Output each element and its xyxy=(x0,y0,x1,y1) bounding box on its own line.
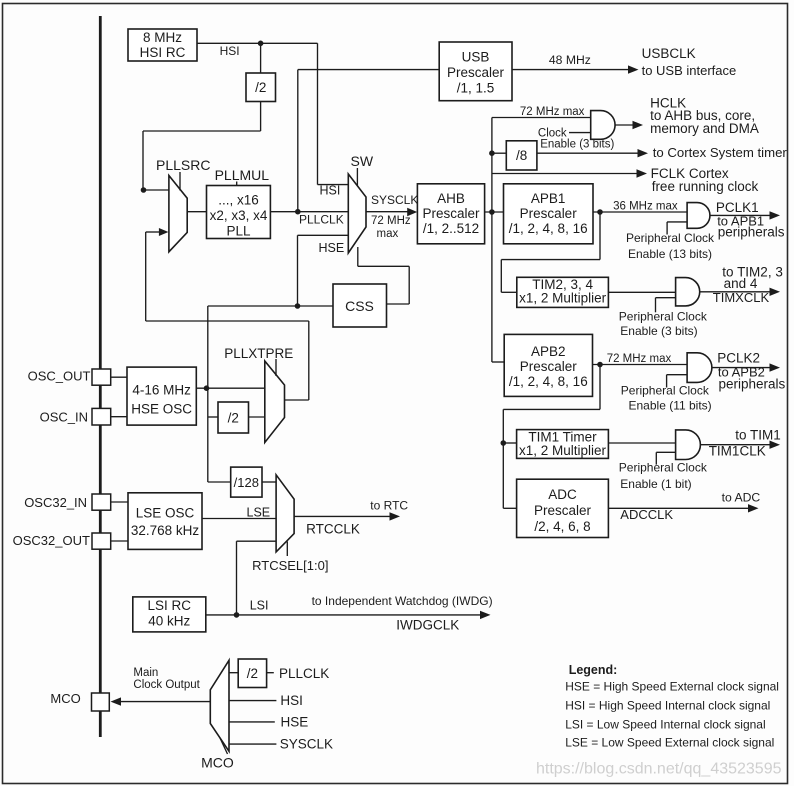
svg-text:LSE = Low Speed External clock: LSE = Low Speed External clock signal xyxy=(565,736,774,750)
svg-text:HSI RC: HSI RC xyxy=(140,45,186,60)
svg-text:TIMXCLK: TIMXCLK xyxy=(713,290,770,305)
svg-text:/8: /8 xyxy=(516,148,527,163)
svg-text:/128: /128 xyxy=(234,475,259,490)
svg-text:HSI: HSI xyxy=(320,184,341,198)
svg-text:Enable (1 bit): Enable (1 bit) xyxy=(620,477,691,491)
svg-text:ADC: ADC xyxy=(548,487,577,502)
svg-text:Enable (3 bits): Enable (3 bits) xyxy=(620,324,697,338)
svg-text:HSI = High Speed Internal cloc: HSI = High Speed Internal clock signal xyxy=(565,699,770,713)
svg-text:max: max xyxy=(377,228,399,240)
svg-text:CSS: CSS xyxy=(345,298,374,314)
svg-text:to ADC: to ADC xyxy=(722,491,761,505)
svg-text:AHB: AHB xyxy=(437,191,465,206)
svg-text:LSI RC: LSI RC xyxy=(148,598,192,613)
svg-text:to Cortex System timer: to Cortex System timer xyxy=(653,145,788,160)
svg-text:40 kHz: 40 kHz xyxy=(148,614,190,629)
svg-text:to RTC: to RTC xyxy=(370,499,408,513)
svg-text:OSC32_IN: OSC32_IN xyxy=(24,495,87,510)
svg-text:Peripheral Clock: Peripheral Clock xyxy=(619,461,708,475)
svg-text:PLLMUL: PLLMUL xyxy=(215,167,270,183)
svg-text:peripherals: peripherals xyxy=(719,377,786,392)
svg-text:..., x16: ..., x16 xyxy=(218,193,259,208)
svg-text:peripherals: peripherals xyxy=(718,225,785,240)
svg-text:LSI = Low Speed Internal clock: LSI = Low Speed Internal clock signal xyxy=(565,718,765,732)
svg-text:PCLK2: PCLK2 xyxy=(717,351,760,366)
svg-text:LSI: LSI xyxy=(250,599,269,613)
svg-text:USBCLK: USBCLK xyxy=(642,46,696,61)
svg-text:x2, x3, x4: x2, x3, x4 xyxy=(210,208,268,223)
svg-text:APB1: APB1 xyxy=(531,191,566,206)
svg-text:SYSCLK: SYSCLK xyxy=(280,737,333,752)
svg-text:Prescaler: Prescaler xyxy=(534,503,592,518)
svg-text:/1, 2, 4, 8, 16: /1, 2, 4, 8, 16 xyxy=(509,374,588,389)
svg-text:Enable (13 bits): Enable (13 bits) xyxy=(628,247,712,261)
svg-text:MCO: MCO xyxy=(201,755,234,771)
svg-text:72 MHz max: 72 MHz max xyxy=(607,353,672,365)
svg-text:/2, 4, 6, 8: /2, 4, 6, 8 xyxy=(534,519,590,534)
svg-text:to Independent Watchdog (IWDG): to Independent Watchdog (IWDG) xyxy=(312,594,493,608)
svg-text:Enable (11 bits): Enable (11 bits) xyxy=(629,399,712,413)
svg-text:Prescaler: Prescaler xyxy=(447,65,505,80)
svg-text:/1, 2..512: /1, 2..512 xyxy=(423,221,479,236)
svg-text:IWDGCLK: IWDGCLK xyxy=(396,618,459,633)
svg-text:https://blog.csdn.net/qq_43523: https://blog.csdn.net/qq_43523595 xyxy=(536,761,782,778)
svg-text:Peripheral Clock: Peripheral Clock xyxy=(621,384,710,398)
svg-text:32.768 kHz: 32.768 kHz xyxy=(131,523,200,538)
svg-text:LSE OSC: LSE OSC xyxy=(136,506,195,521)
svg-text:Main: Main xyxy=(133,667,158,679)
svg-text:LSE: LSE xyxy=(247,506,271,520)
svg-text:HSE = High Speed External cloc: HSE = High Speed External clock signal xyxy=(565,680,779,694)
svg-text:PLLXTPRE: PLLXTPRE xyxy=(224,346,293,361)
svg-text:/2: /2 xyxy=(255,80,266,95)
svg-text:Enable (3 bits): Enable (3 bits) xyxy=(540,139,614,151)
svg-text:x1, 2 Multiplier: x1, 2 Multiplier xyxy=(519,443,607,458)
svg-text:72 MHz: 72 MHz xyxy=(371,215,411,227)
svg-text:TIM1CLK: TIM1CLK xyxy=(709,444,766,459)
svg-text:PLLSRC: PLLSRC xyxy=(156,157,210,173)
svg-text:Clock Output: Clock Output xyxy=(133,679,200,691)
svg-text:Legend:: Legend: xyxy=(569,663,618,677)
svg-text:OSC_OUT: OSC_OUT xyxy=(28,369,91,384)
svg-text:/1, 1.5: /1, 1.5 xyxy=(457,81,495,96)
svg-text:8 MHz: 8 MHz xyxy=(143,30,182,45)
svg-text:SW: SW xyxy=(351,153,374,169)
svg-text:/2: /2 xyxy=(247,666,258,681)
svg-text:free running clock: free running clock xyxy=(652,179,759,194)
svg-text:Prescaler: Prescaler xyxy=(520,206,578,221)
svg-text:and 4: and 4 xyxy=(724,276,758,291)
svg-text:PLLCLK: PLLCLK xyxy=(279,666,329,681)
svg-text:memory and DMA: memory and DMA xyxy=(650,121,759,136)
svg-text:HSI: HSI xyxy=(220,44,240,58)
svg-text:to USB interface: to USB interface xyxy=(642,63,737,78)
svg-text:/1, 2, 4, 8, 16: /1, 2, 4, 8, 16 xyxy=(509,221,588,236)
svg-text:36 MHz max: 36 MHz max xyxy=(613,201,678,213)
svg-text:USB: USB xyxy=(462,50,490,65)
svg-text:SYSCLK: SYSCLK xyxy=(371,193,418,207)
svg-text:APB2: APB2 xyxy=(531,344,566,359)
svg-text:OSC_IN: OSC_IN xyxy=(40,410,88,425)
svg-text:Prescaler: Prescaler xyxy=(520,359,578,374)
svg-text:x1, 2 Multiplier: x1, 2 Multiplier xyxy=(519,291,607,306)
svg-text:PLLCLK: PLLCLK xyxy=(299,213,344,227)
svg-text:Prescaler: Prescaler xyxy=(422,206,480,221)
svg-text:RTCSEL[1:0]: RTCSEL[1:0] xyxy=(252,558,328,573)
svg-text:HSE OSC: HSE OSC xyxy=(131,402,192,417)
svg-text:RTCCLK: RTCCLK xyxy=(306,522,360,537)
svg-text:48 MHz: 48 MHz xyxy=(549,53,591,67)
svg-text:ADCCLK: ADCCLK xyxy=(620,507,673,522)
svg-text:HSI: HSI xyxy=(280,693,303,708)
svg-text:4-16 MHz: 4-16 MHz xyxy=(132,383,191,398)
svg-text:PLL: PLL xyxy=(226,224,251,239)
svg-text:HSE: HSE xyxy=(281,715,309,730)
svg-text:OSC32_OUT: OSC32_OUT xyxy=(13,533,90,548)
svg-text:HSE: HSE xyxy=(319,241,345,255)
svg-text:/2: /2 xyxy=(228,411,239,426)
svg-text:to TIM1: to TIM1 xyxy=(735,428,781,443)
svg-text:Peripheral Clock: Peripheral Clock xyxy=(619,310,708,324)
svg-text:Peripheral Clock: Peripheral Clock xyxy=(626,231,715,245)
svg-text:MCO: MCO xyxy=(50,691,80,706)
svg-text:72 MHz max: 72 MHz max xyxy=(520,106,585,118)
